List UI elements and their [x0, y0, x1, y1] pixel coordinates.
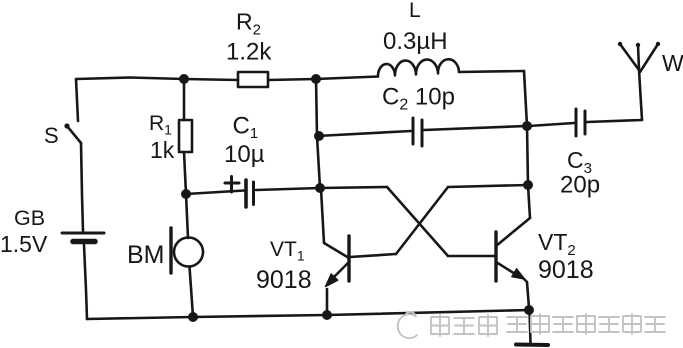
- svg-text:L: L: [409, 0, 421, 22]
- wire R1 top lead: [183, 79, 186, 120]
- transistor VT1: [326, 236, 350, 287]
- battery GB: [62, 233, 104, 242]
- node C2 left: [314, 131, 324, 141]
- wire top rail left: [76, 78, 184, 80]
- wire VT1 emitter to rail: [326, 289, 329, 315]
- wire VT1 collector lead: [321, 189, 349, 258]
- wire top rail to R2: [184, 79, 238, 80]
- wire switch to battery: [81, 143, 83, 231]
- wire VT1 base lead: [350, 254, 396, 257]
- wire middle rail upper: [316, 78, 317, 136]
- svg-text:1.5V: 1.5V: [0, 231, 48, 257]
- wire C1 right lead: [256, 188, 320, 190]
- svg-text:C1: C1: [233, 113, 259, 143]
- node R1 bottom: [181, 189, 191, 199]
- wire C2 right lead: [424, 126, 527, 130]
- wire C3 to antenna: [587, 120, 642, 122]
- wire switch upper lead: [76, 79, 78, 121]
- antenna W: [618, 42, 660, 120]
- switch S: [64, 123, 81, 143]
- ground: [516, 310, 548, 345]
- node VT1 collector net: [315, 183, 325, 193]
- svg-text:R2: R2: [236, 9, 261, 39]
- node bottom BM: [188, 312, 198, 322]
- wire C1 left lead: [186, 191, 244, 195]
- wire R2 to tank node: [268, 79, 316, 80]
- svg-text:1k: 1k: [150, 137, 175, 163]
- svg-text:GB: GB: [14, 206, 45, 230]
- wire battery to bottom rail: [84, 245, 87, 319]
- svg-text:R1: R1: [149, 112, 172, 138]
- svg-text:9018: 9018: [256, 266, 312, 294]
- svg-text:10µ: 10µ: [224, 141, 265, 168]
- svg-text:W: W: [662, 50, 683, 76]
- transistor VT2: [496, 218, 530, 308]
- wire corner down to tank right: [524, 71, 527, 126]
- svg-text:20p: 20p: [560, 172, 600, 199]
- wire inductor to corner: [459, 71, 524, 72]
- svg-text:C2 10p: C2 10p: [382, 84, 455, 114]
- svg-text:9018: 9018: [538, 256, 594, 284]
- node tank right: [522, 121, 532, 131]
- node tank left top: [311, 74, 321, 84]
- wire tank right rail: [527, 126, 528, 185]
- wire middle rail lower: [317, 136, 320, 188]
- wire cross couple right diagonal: [396, 187, 448, 254]
- wire BM bottom lead: [190, 267, 194, 318]
- wire BM top lead: [186, 194, 188, 238]
- svg-text:S: S: [44, 123, 59, 148]
- capacitor C1: [246, 180, 254, 207]
- capacitor C2: [413, 118, 422, 146]
- wire cross couple left diagonal: [387, 187, 448, 256]
- svg-text:VT2: VT2: [538, 229, 576, 259]
- node top of R1: [179, 74, 189, 84]
- capacitor C3: [576, 109, 585, 136]
- wire R1 bottom lead: [184, 152, 186, 194]
- wire cross couple left horizontal: [320, 187, 387, 188]
- capacitor C1 polarity plus: [225, 177, 239, 193]
- svg-text:0.3µH: 0.3µH: [383, 28, 448, 55]
- wire C2 left lead: [317, 131, 411, 136]
- svg-text:VT1: VT1: [270, 238, 305, 264]
- wire bottom rail: [87, 310, 529, 319]
- wire C3 left lead: [529, 123, 574, 126]
- node VT2 collector net: [523, 180, 533, 190]
- microphone BM: [171, 228, 203, 273]
- node bottom VT2 emitter: [524, 305, 534, 315]
- watermark: [398, 312, 665, 338]
- resistor R1: [179, 120, 192, 152]
- resistor R2: [238, 72, 268, 87]
- inductor L: [378, 59, 459, 76]
- svg-text:1.2k: 1.2k: [226, 39, 272, 66]
- wire cross couple right horizontal: [448, 185, 528, 187]
- wire VT2 base lead: [448, 255, 496, 258]
- node bottom VT1 emitter: [322, 310, 332, 320]
- wire VT2 collector vertical: [528, 185, 530, 218]
- svg-text:BM: BM: [127, 241, 165, 269]
- wire to inductor: [316, 77, 378, 80]
